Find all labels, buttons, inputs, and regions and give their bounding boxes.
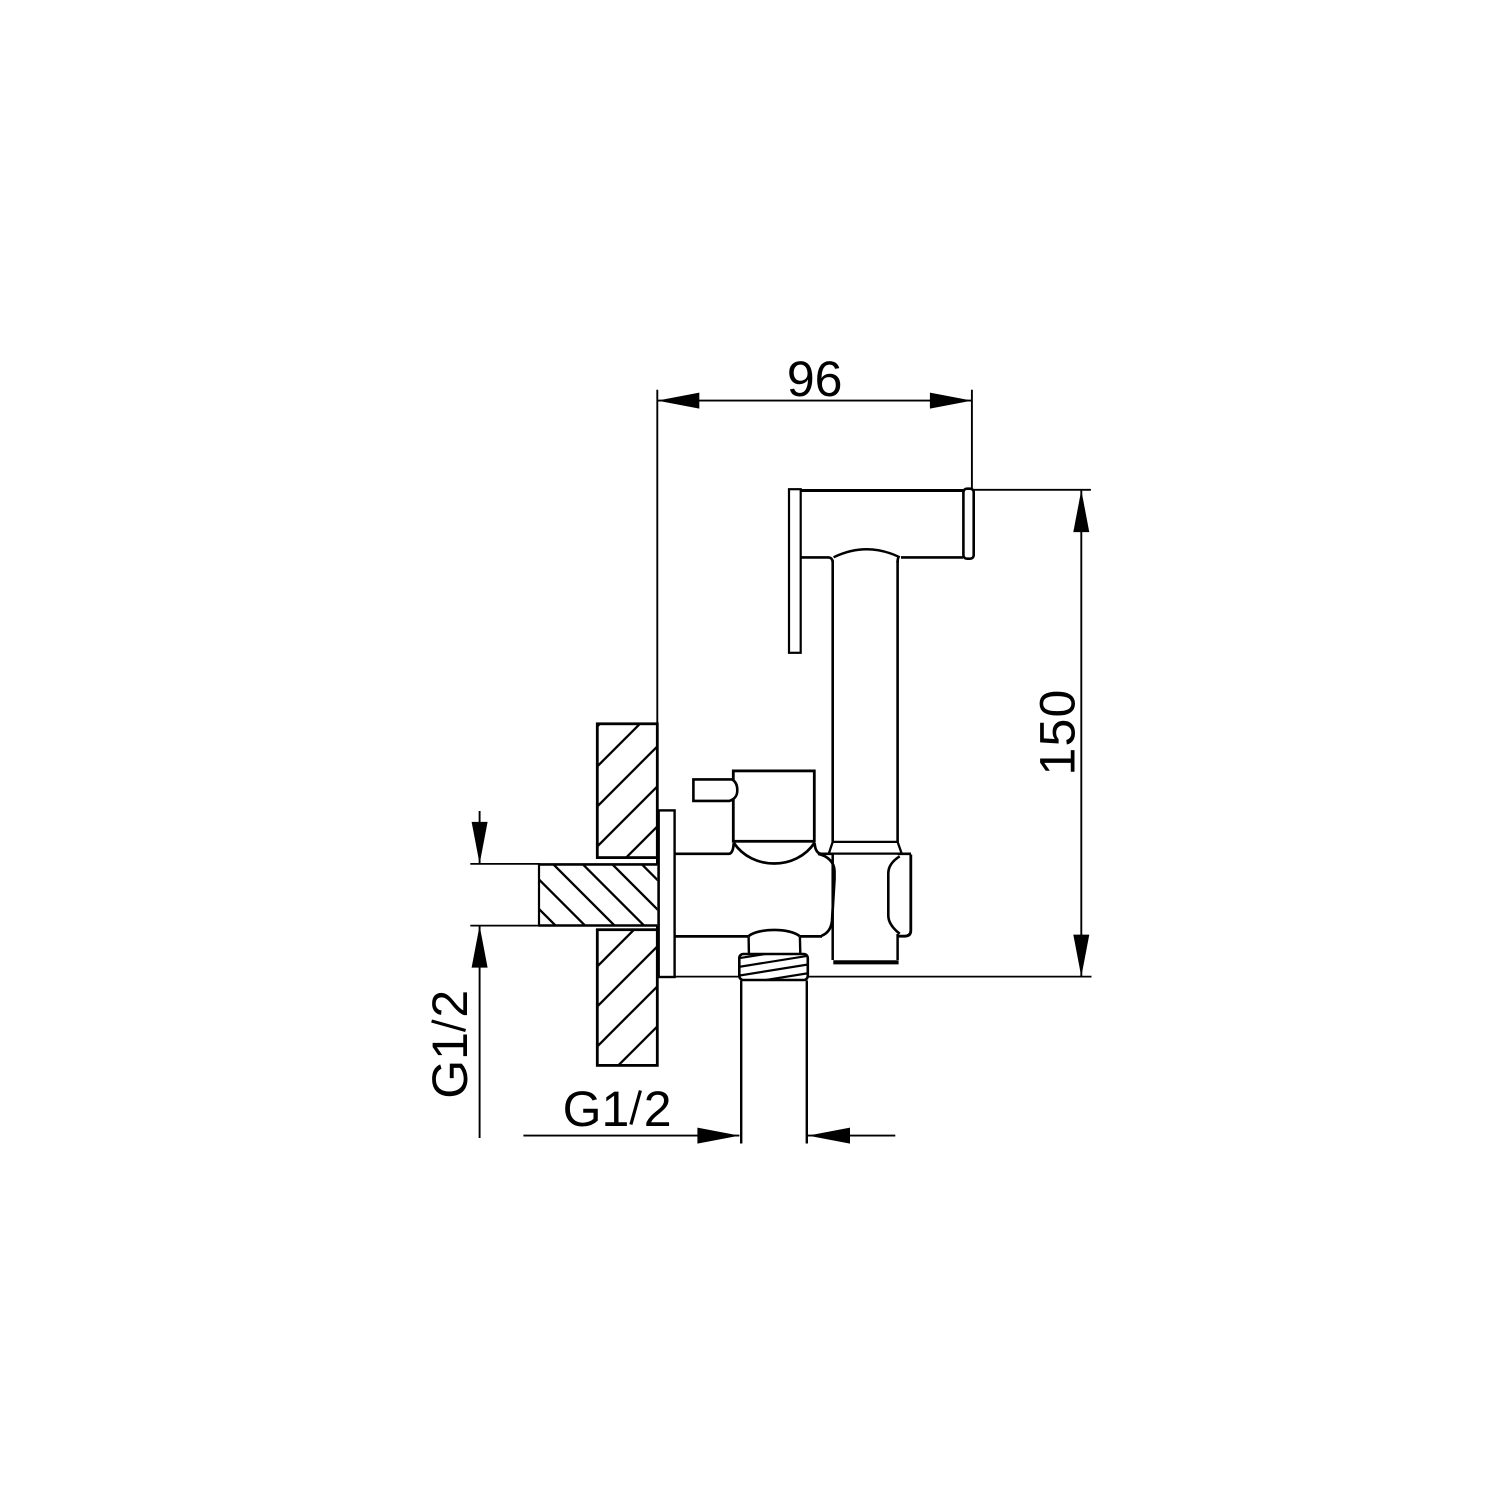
wall right face across pipe gap xyxy=(656,858,659,930)
head-to-handle arc bump xyxy=(834,549,900,557)
left G1/2 dim: upper extension line xyxy=(470,863,539,865)
svg-text:96: 96 xyxy=(787,351,843,407)
150 dim: top arrow xyxy=(1073,490,1089,532)
150 dim: bottom arrow xyxy=(1073,935,1089,977)
hose pipe below nut xyxy=(741,981,807,1144)
96 dim: right arrow xyxy=(930,393,972,409)
left G1/2 dim: down arrow xyxy=(472,822,488,864)
svg-text:2: 2 xyxy=(644,1081,672,1137)
head end cap (right) xyxy=(963,489,973,559)
96 dim: right extension line xyxy=(971,390,973,489)
sprayer handle tube xyxy=(833,561,898,842)
sprayer head body top line xyxy=(789,489,964,492)
sprayer handle lower part in cup xyxy=(833,854,899,963)
handle collar (cone at cup top) xyxy=(829,842,902,854)
escutcheon flange plate on wall xyxy=(659,810,675,977)
left G1/2 dim: vertical dimension line xyxy=(479,811,481,1138)
outlet cone sides xyxy=(749,937,801,953)
valve body bottom line xyxy=(676,935,823,938)
diverter body rectangle on valve xyxy=(733,771,814,841)
150 dim: top extension line xyxy=(974,489,1091,491)
sprayer head bottom line with handle corners xyxy=(801,557,963,563)
bottom G1/2 dim: dimension line left segment xyxy=(523,1135,739,1137)
valve body right edge merging into cup rim xyxy=(818,854,835,936)
wall lower block (hatched section) xyxy=(580,844,720,1144)
hose nut (with thread spirals) xyxy=(737,947,810,985)
96 dim: dimension line xyxy=(657,400,972,402)
150 dim: bottom extension line (left part) xyxy=(676,976,740,978)
left G1/2 dim: up arrow xyxy=(472,926,488,968)
cup front rim right (D-arc) xyxy=(888,856,899,934)
150 dim: dimension line xyxy=(1080,490,1082,976)
150 dim: bottom extension line (right part) xyxy=(808,976,1092,978)
inlet pipe stub through wall (hatched) xyxy=(520,743,700,1071)
svg-text:150: 150 xyxy=(1030,688,1086,775)
bottom G1/2 dim: dimension line right segment xyxy=(808,1135,895,1137)
96 dim: left arrow xyxy=(657,393,699,409)
outlet fillet arc under valve xyxy=(748,930,800,936)
left G1/2 dim: lower extension line xyxy=(470,925,539,927)
left G1/2 dim: label (rotated) xyxy=(422,990,478,1099)
wire: long left extension line of 96 dim / wall face axis xyxy=(656,390,658,860)
svg-text:G1: G1 xyxy=(422,1032,478,1099)
sprayer holder cup right wall xyxy=(898,855,911,937)
valve body top line with sag arc xyxy=(676,843,912,864)
wall upper block (hatched section) xyxy=(580,604,720,904)
svg-text:G1: G1 xyxy=(563,1081,630,1137)
bottom G1/2 dim: left-pointing arrow xyxy=(808,1128,850,1144)
spray face plate xyxy=(789,489,801,653)
bottom G1/2 dim: right-pointing arrow xyxy=(697,1128,739,1144)
diverter knob xyxy=(693,779,737,801)
svg-text:2: 2 xyxy=(422,990,478,1018)
